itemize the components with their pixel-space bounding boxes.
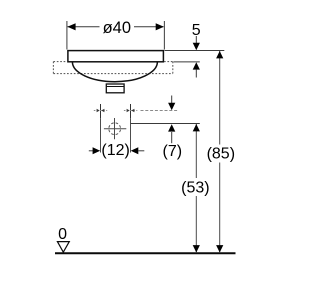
- waste outlet centerline horizontal: [104, 128, 126, 130]
- washbasin bowl: [72, 62, 157, 82]
- dimension (12) arrows: [89, 147, 145, 154]
- svg-text:(53): (53): [181, 179, 209, 196]
- dimension ø40 line with arrows: [67, 23, 163, 30]
- dimension (85) line with arrows: [216, 51, 223, 253]
- outlet level extension line: [131, 123, 200, 125]
- countertop level extension line: [174, 61, 200, 63]
- floor line: [55, 252, 236, 254]
- dimension (53) label: [181, 179, 209, 196]
- dimension (12) extension line right: [130, 118, 132, 152]
- svg-text:ø40: ø40: [103, 18, 131, 37]
- svg-text:(7): (7): [163, 143, 183, 160]
- waste outlet dashed circle: [109, 123, 121, 135]
- svg-text:(12): (12): [101, 142, 129, 159]
- dimension ø40 extension line left: [66, 21, 68, 50]
- dimension ø40 label: [103, 18, 131, 37]
- dimension ø40 extension line right: [163, 21, 165, 50]
- waste outlet centerline vertical: [114, 118, 116, 139]
- svg-text:(85): (85): [207, 145, 235, 162]
- dimension (12) extension line left: [100, 118, 102, 152]
- drain level dashed line: [141, 110, 179, 112]
- washbasin rim: [68, 51, 163, 62]
- countertop dashed outline: [53, 62, 172, 74]
- rim top level extension line: [165, 50, 225, 52]
- svg-text:0: 0: [58, 226, 67, 243]
- dimension (85) label: [207, 145, 235, 162]
- dimension (7) upper arrow: [168, 96, 175, 111]
- dimension (7) label: [163, 143, 183, 160]
- dimension (53) line with arrows: [193, 124, 200, 253]
- dimension (7) lower arrow: [168, 124, 175, 143]
- zero level triangle symbol: [57, 242, 69, 253]
- dimension (12) label: [101, 142, 129, 159]
- drain outlet axis mark right: [124, 104, 137, 118]
- drain outlet axis mark left: [94, 104, 107, 118]
- dimension 5 arrows: [193, 36, 200, 78]
- drain fitting: [106, 84, 124, 93]
- dimension 5 label: [192, 22, 201, 39]
- zero level label: [58, 226, 67, 243]
